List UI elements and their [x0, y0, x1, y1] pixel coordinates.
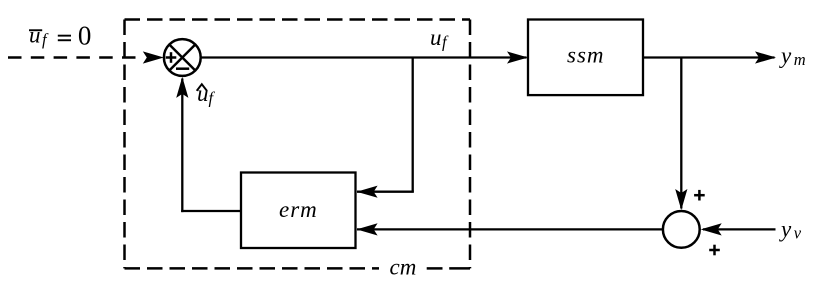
dashed box cm (bottom edge, left part)	[125, 267, 380, 270]
svg-text:u: u	[430, 25, 442, 50]
wire: S1 output to ssm	[201, 56, 527, 58]
summing junction S1 (circle with cross)	[164, 39, 201, 76]
arrowhead into S2 (right)	[701, 223, 722, 235]
arrowhead into S2 (top)	[675, 189, 687, 210]
block ssm	[528, 20, 643, 96]
svg-text:erm: erm	[279, 197, 318, 222]
svg-text:y: y	[779, 217, 792, 242]
arrowhead into erm (lower)	[357, 223, 378, 235]
svg-text:ssm: ssm	[567, 43, 605, 68]
arrowhead y_m	[755, 51, 776, 63]
sign - (bottom input of S1)	[176, 67, 189, 70]
summing junction S2	[663, 211, 700, 248]
svg-text:y: y	[779, 43, 792, 68]
wire: y_v input	[703, 228, 776, 230]
arrowhead into ssm	[507, 51, 528, 63]
svg-text:u: u	[29, 23, 41, 48]
wire: S2 output to erm	[357, 228, 662, 230]
dashed box cm (right edge)	[469, 20, 472, 269]
svg-text:cm: cm	[390, 255, 417, 280]
wire: ssm output to y_m	[643, 56, 775, 58]
wire: branch of u_f down to erm	[357, 58, 414, 192]
svg-text:0: 0	[78, 21, 92, 51]
label y_v	[779, 217, 802, 243]
sign + (right input of S2)	[709, 245, 720, 256]
label uhat_f	[197, 81, 216, 108]
dashed box cm (left edge)	[123, 20, 126, 269]
label u_f	[430, 25, 449, 52]
wire: branch of y_m down to summing junction S2	[680, 58, 682, 209]
block erm	[241, 173, 356, 249]
dashed box cm (top edge)	[125, 18, 471, 21]
dashed box cm (bottom edge, right part)	[427, 267, 443, 270]
arrowhead into erm (upper)	[357, 186, 378, 198]
label ubar_f = 0	[29, 21, 91, 51]
wire: erm output up to S1	[181, 79, 241, 213]
sign + (left input of S1)	[166, 52, 177, 63]
arrowhead into summing junction S1	[143, 51, 164, 63]
sign + (top input of S2)	[694, 190, 705, 201]
arrowhead into S1 (bottom)	[176, 77, 188, 98]
svg-text:v: v	[794, 224, 802, 243]
label y_m	[779, 43, 806, 69]
wire: dashed reference input	[8, 56, 141, 59]
svg-text:m: m	[794, 50, 806, 69]
